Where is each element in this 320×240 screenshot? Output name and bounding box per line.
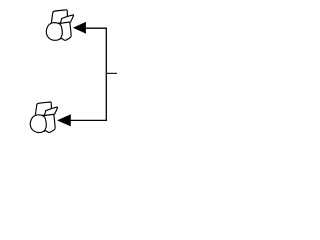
wire: bottom horizontal to device 2 (70, 119, 107, 121)
round body (circle) (46, 23, 62, 41)
device icon 1 (printer/sketch) (46, 10, 73, 41)
wire: top horizontal to device 1 (85, 27, 107, 29)
wire: vertical bus (105, 28, 107, 120)
wire: stub branch right (106, 72, 117, 74)
arrowhead to device 1 (74, 22, 86, 33)
box body (57, 22, 71, 40)
flap (front page) (61, 15, 74, 23)
arrowhead to device 2 (58, 115, 71, 126)
device icon 2 (printer/sketch) (30, 102, 57, 133)
sheet (back page) (51, 10, 67, 24)
